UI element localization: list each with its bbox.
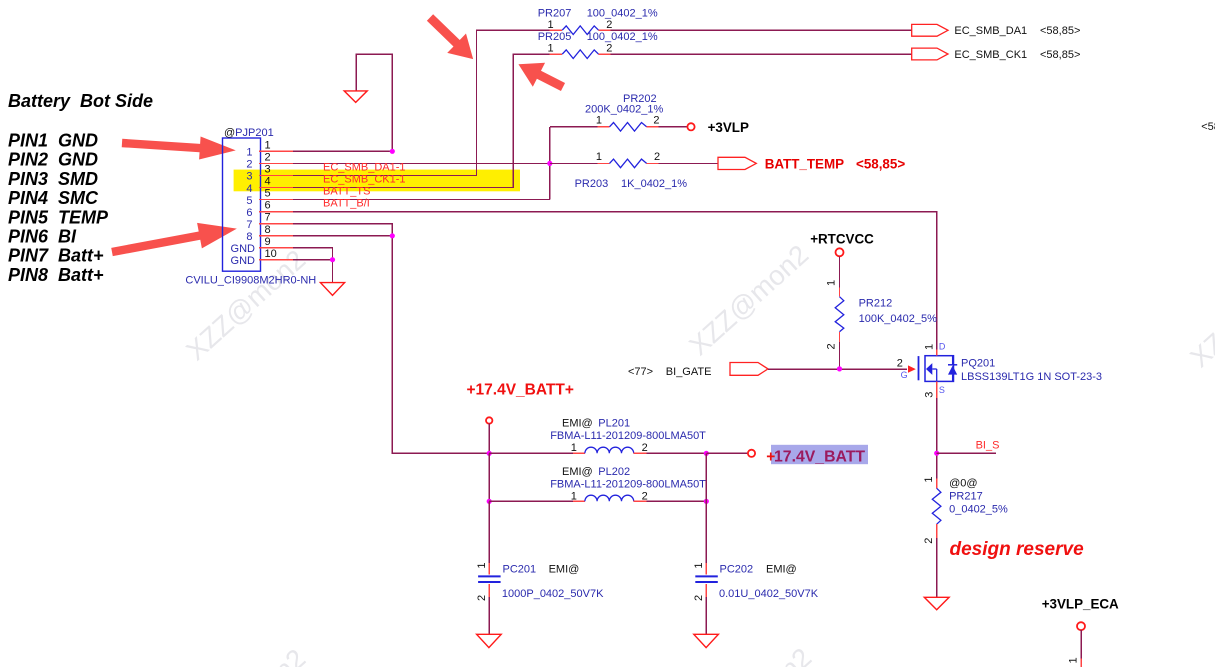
svg-text:0.01U_0402_50V7K: 0.01U_0402_50V7K: [719, 588, 819, 600]
svg-text:+3VLP_ECA: +3VLP_ECA: [1042, 597, 1119, 612]
svg-text:1: 1: [596, 115, 602, 127]
svg-text:6: 6: [265, 200, 271, 212]
wire node to power circle: [706, 452, 748, 454]
svg-text:PIN6 BI: PIN6 BI: [8, 227, 77, 247]
svg-text:PIN1 GND: PIN1 GND: [8, 131, 98, 151]
svg-text:PR203: PR203: [575, 178, 609, 190]
wire pin6 BATT_B/I to PQ201 drain: [293, 212, 937, 350]
svg-text:1: 1: [246, 147, 252, 159]
svg-text:2: 2: [642, 442, 648, 454]
node junction row2 right: [704, 499, 709, 504]
svg-text:CVILU_CI9908M2HR0-NH: CVILU_CI9908M2HR0-NH: [185, 275, 316, 287]
capacitor PC201: [476, 501, 604, 634]
wire PQ201 source down: [936, 398, 938, 478]
node junction rail left: [487, 451, 492, 456]
wire pin9: [293, 248, 333, 260]
svg-text:<77>: <77>: [628, 366, 653, 378]
svg-text:@PJP201: @PJP201: [224, 127, 274, 139]
svg-text:100_0402_1%: 100_0402_1%: [587, 31, 658, 43]
svg-text:2: 2: [653, 115, 659, 127]
wire rail2 to PL202: [489, 500, 573, 502]
svg-text:2: 2: [826, 343, 838, 349]
resistor PR217: [923, 476, 1008, 597]
wire node vertical PR202-junction-BATT_TS: [549, 127, 551, 200]
svg-text:EC_SMB_CK1-1: EC_SMB_CK1-1: [323, 174, 406, 186]
node pin9/10 junction: [330, 257, 335, 262]
node pin1 junction: [390, 149, 395, 154]
pin stub 10: [259, 259, 293, 261]
svg-text:7: 7: [246, 219, 252, 231]
svg-text:GND: GND: [231, 255, 256, 267]
svg-text:10: 10: [265, 248, 277, 260]
svg-text:EMI@: EMI@: [562, 417, 593, 429]
wire PL201 to node: [646, 452, 706, 454]
svg-text:PC202: PC202: [720, 564, 754, 576]
pin stub 2: [259, 162, 293, 164]
svg-text:2: 2: [476, 595, 488, 601]
svg-text:1: 1: [548, 19, 554, 31]
svg-text:EMI@: EMI@: [549, 564, 580, 576]
resistor PR207: [538, 8, 658, 35]
svg-text:<58,: <58,: [1201, 121, 1215, 133]
svg-text:GND: GND: [231, 243, 256, 255]
svg-text:1: 1: [548, 43, 554, 55]
wire PR205 to EC_SMB_CK1 port: [610, 53, 911, 55]
svg-text:3: 3: [246, 171, 252, 183]
svg-text:3: 3: [265, 163, 271, 175]
port EC_SMB_CK1: [912, 48, 948, 60]
svg-text:@0@: @0@: [949, 478, 977, 490]
svg-text:1: 1: [265, 139, 271, 151]
svg-text:2: 2: [642, 490, 648, 502]
resistor PR212: [826, 256, 937, 369]
pin stub 3: [259, 174, 293, 176]
svg-text:PR207: PR207: [538, 8, 572, 20]
svg-text:PC201: PC201: [503, 564, 537, 576]
wire pin4 EC_SMB_CK1-1 up to PR205: [293, 54, 550, 187]
svg-text:FBMA-L11-201209-800LMA50T: FBMA-L11-201209-800LMA50T: [550, 478, 706, 490]
svg-text:7: 7: [265, 212, 271, 224]
svg-text:2: 2: [897, 357, 903, 369]
connector PJP201 body: [223, 127, 274, 271]
svg-text:2: 2: [606, 43, 612, 55]
pin stub 9: [259, 247, 293, 249]
pin stub 7: [259, 223, 293, 225]
svg-text:9: 9: [265, 236, 271, 248]
svg-text:+3VLP: +3VLP: [708, 120, 749, 135]
wire pin3 EC_SMB_DA1-1 up to PR207: [293, 30, 550, 175]
node junction BI_S: [934, 451, 939, 456]
svg-text:Battery Bot Side: Battery Bot Side: [8, 91, 153, 111]
svg-text:PIN5 TEMP: PIN5 TEMP: [8, 207, 109, 227]
svg-text:1000P_0402_50V7K: 1000P_0402_50V7K: [502, 588, 604, 600]
capacitor PC202: [693, 501, 819, 634]
svg-text:4: 4: [246, 183, 252, 195]
svg-text:2: 2: [246, 159, 252, 171]
highlight yellow over nets EC_SMB_DA1-1/EC_SMB_CK1-1: [234, 170, 520, 192]
node junction row2 left: [487, 499, 492, 504]
svg-text:PR217: PR217: [949, 491, 983, 503]
svg-text:5: 5: [265, 188, 271, 200]
svg-text:2: 2: [265, 151, 271, 163]
wire left branch down: [488, 453, 490, 501]
svg-text:G: G: [901, 370, 908, 380]
ground (pin1): [344, 91, 367, 103]
svg-text:17.4V_BATT: 17.4V_BATT: [774, 449, 865, 466]
svg-text:PR205: PR205: [538, 31, 572, 43]
svg-text:4: 4: [265, 176, 271, 188]
svg-text:PR212: PR212: [859, 298, 893, 310]
pin stub 6: [259, 211, 293, 213]
svg-text:PIN3 SMD: PIN3 SMD: [8, 169, 98, 189]
wire rail to PL201: [489, 452, 573, 454]
svg-text:design reserve: design reserve: [950, 539, 1085, 560]
wire BI_GATE to PQ201 gate: [768, 368, 907, 370]
svg-text:100_0402_1%: 100_0402_1%: [587, 8, 658, 20]
svg-text:1: 1: [476, 562, 488, 568]
svg-text:LBSS139LT1G 1N SOT-23-3: LBSS139LT1G 1N SOT-23-3: [961, 371, 1102, 383]
pin stub 4: [259, 187, 293, 189]
svg-text:<58,85>: <58,85>: [856, 156, 905, 171]
svg-text:PIN7 Batt+: PIN7 Batt+: [8, 246, 104, 266]
annotation arrow to EC_SMB_CK1-1 vertical: [512, 52, 569, 99]
svg-text:EC_SMB_CK1: EC_SMB_CK1: [954, 49, 1027, 61]
pin stub 8: [259, 235, 293, 237]
svg-text:EMI@: EMI@: [562, 466, 593, 478]
svg-text:1: 1: [924, 344, 936, 350]
node junction rail right: [704, 451, 709, 456]
svg-text:2: 2: [606, 19, 612, 31]
highlight box 17.4V_BATT: [771, 445, 868, 464]
svg-text:BATT_TS: BATT_TS: [323, 186, 370, 198]
svg-text:1: 1: [571, 442, 577, 454]
port EC_SMB_DA1: [912, 24, 948, 36]
svg-text:BI_GATE: BI_GATE: [666, 366, 712, 378]
svg-text:EC_SMB_DA1-1: EC_SMB_DA1-1: [323, 162, 406, 174]
svg-text:1: 1: [571, 490, 577, 502]
node junction BATT_TEMP: [547, 161, 552, 166]
wire pin7/pin8 down to +17.4V rail: [293, 224, 489, 454]
svg-text:XZZ@mon2: XZZ@mon2: [180, 643, 311, 667]
svg-text:BATT_B/I: BATT_B/I: [323, 198, 370, 210]
inductor PL201: [550, 417, 706, 454]
wire pin8: [293, 235, 392, 237]
wire right branch between nodes: [705, 453, 707, 501]
power symbol on rail: [486, 417, 492, 423]
svg-text:3: 3: [924, 392, 936, 398]
svg-text:2: 2: [654, 151, 660, 163]
resistor PR205: [538, 31, 658, 58]
svg-text:8: 8: [246, 231, 252, 243]
annotation arrow to PIN7 row: [110, 216, 240, 265]
svg-text:PQ201: PQ201: [961, 357, 995, 369]
pin stub 5: [259, 199, 293, 201]
svg-text:<58,85>: <58,85>: [1040, 49, 1080, 61]
svg-text:1: 1: [596, 151, 602, 163]
svg-text:+17.4V_BATT+: +17.4V_BATT+: [467, 382, 574, 399]
svg-text:S: S: [939, 385, 945, 395]
svg-text:6: 6: [246, 207, 252, 219]
svg-text:0_0402_5%: 0_0402_5%: [949, 503, 1008, 515]
svg-text:PIN8 Batt+: PIN8 Batt+: [8, 265, 104, 285]
node junction PR212/BI_GATE: [837, 366, 842, 371]
svg-text:1: 1: [693, 562, 705, 568]
power symbol +17.4V_BATT: [748, 450, 755, 457]
svg-text:XZZ@mon2: XZZ@mon2: [683, 239, 814, 362]
resistor PR203: [550, 151, 718, 190]
pin stub ECA: [1080, 659, 1082, 667]
svg-text:2: 2: [923, 538, 935, 544]
svg-text:EMI@: EMI@: [766, 564, 797, 576]
svg-text:+RTCVCC: +RTCVCC: [810, 232, 874, 247]
resistor PR202: [550, 93, 688, 131]
svg-text:XZZ@mon2: XZZ@mon2: [686, 642, 817, 667]
ground (pin10): [320, 283, 344, 296]
svg-text:2: 2: [693, 595, 705, 601]
svg-text:100K_0402_5%: 100K_0402_5%: [859, 313, 938, 325]
wire pin5 BATT_TS: [293, 199, 550, 201]
svg-text:1: 1: [826, 280, 838, 286]
wire pin1 to ground loop: [293, 54, 392, 151]
ground (PC202): [694, 634, 719, 647]
inductor PL202: [550, 466, 706, 503]
wire BI_S stub: [937, 452, 996, 454]
wire power stub: [488, 424, 490, 454]
pin stub 1: [259, 150, 293, 152]
svg-text:PL201: PL201: [598, 417, 630, 429]
svg-text:FBMA-L11-201209-800LMA50T: FBMA-L11-201209-800LMA50T: [550, 430, 706, 442]
wire PR207 to EC_SMB_DA1 port: [610, 29, 911, 31]
svg-text:PL202: PL202: [598, 466, 630, 478]
svg-text:XZZ@mon2: XZZ@mon2: [1184, 251, 1215, 374]
wire pin2 to PR202/PR203 node: [293, 162, 550, 164]
wire PL202 to node: [646, 500, 706, 502]
svg-text:1: 1: [923, 476, 935, 482]
ground (PC201): [477, 634, 502, 647]
wire +3VLP_ECA down: [1080, 630, 1082, 659]
transistor PQ201: [897, 342, 1102, 399]
svg-text:EC_SMB_DA1: EC_SMB_DA1: [954, 25, 1027, 37]
svg-text:5: 5: [246, 195, 252, 207]
wire pin10 to ground: [293, 260, 333, 283]
svg-text:<58,85>: <58,85>: [1040, 25, 1080, 37]
svg-text:PIN4 SMC: PIN4 SMC: [8, 188, 99, 208]
svg-text:1K_0402_1%: 1K_0402_1%: [621, 178, 687, 190]
annotation arrow to EC_SMB_DA1-1 vertical: [421, 8, 483, 69]
power symbol +3VLP: [687, 123, 694, 130]
svg-text:BATT_TEMP: BATT_TEMP: [765, 156, 844, 171]
svg-text:PIN2 GND: PIN2 GND: [8, 150, 98, 170]
annotation arrow to PIN1 row: [121, 132, 236, 162]
svg-text:8: 8: [265, 224, 271, 236]
svg-text:D: D: [939, 342, 946, 352]
svg-text:1: 1: [1067, 657, 1079, 663]
node pin8 junction: [390, 233, 395, 238]
port BATT_TEMP: [718, 157, 756, 169]
ground (PR217): [924, 597, 949, 610]
svg-text:BI_S: BI_S: [976, 440, 1000, 452]
